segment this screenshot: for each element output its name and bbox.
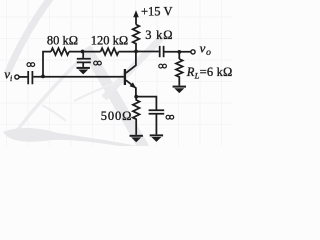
node O junction dot <box>177 50 181 54</box>
node B junction dot <box>81 50 85 54</box>
ground G2 (RL) <box>173 86 186 94</box>
capacitor CE (emitter bypass) <box>149 110 165 113</box>
svg-text:120 kΩ: 120 kΩ <box>91 34 128 48</box>
wire emitter to CE <box>136 97 156 110</box>
wire R2 to node X <box>119 51 136 53</box>
resistor R3 3k <box>133 25 140 52</box>
capacitor C3 (output coupling) <box>160 46 164 57</box>
resistor R2 120k <box>101 48 119 55</box>
capacitor C1 (input coupling) <box>28 71 32 84</box>
ground G4 (CE) <box>150 134 163 142</box>
supply arrowhead <box>133 10 139 17</box>
wire node O down to RL <box>178 52 180 59</box>
transistor Q1 collector <box>126 51 136 73</box>
wire node A up to R1 <box>43 52 51 77</box>
transistor Q1 emitter <box>126 80 136 96</box>
ground G3 (RE) <box>130 135 143 143</box>
wire C3 to node O <box>164 51 190 53</box>
wire emitter node <box>134 95 138 99</box>
capacitor C2 (bias bypass) <box>77 59 91 63</box>
wire R1 to node B <box>69 51 101 53</box>
node X junction dot <box>134 50 138 54</box>
resistor RE 500 <box>133 97 140 135</box>
svg-text:500Ω: 500Ω <box>101 109 133 123</box>
svg-text:RL=6 kΩ: RL=6 kΩ <box>186 65 232 81</box>
infinity label CE <box>166 115 174 119</box>
supply arrow +15V <box>135 16 137 25</box>
infinity label C3 <box>159 64 167 68</box>
infinity label C1 <box>27 63 35 67</box>
node vi terminal <box>15 75 19 79</box>
svg-text:+15 V: +15 V <box>141 4 172 18</box>
svg-text:80 kΩ: 80 kΩ <box>47 34 78 48</box>
wire CE to ground <box>155 114 157 135</box>
transistor Q1 emitter arrowhead <box>130 82 137 88</box>
resistor R1 80k <box>51 48 69 55</box>
node A junction dot <box>41 75 45 79</box>
node vo terminal <box>191 50 195 54</box>
wire C2 to ground <box>82 62 84 67</box>
faint grid <box>0 0 232 146</box>
watermark swooshes <box>3 0 163 149</box>
wire vi to C1 <box>19 76 27 78</box>
transistor Q1 base bar <box>124 69 126 85</box>
resistor RL 6k <box>176 59 183 86</box>
wire node B down to C2 <box>82 52 84 59</box>
ground G1 (bias bypass) <box>77 67 90 75</box>
infinity label C2 <box>94 61 102 65</box>
wire C1 to base <box>33 76 124 78</box>
svg-text:3 kΩ: 3 kΩ <box>145 28 173 42</box>
wire node X to C3 <box>136 51 159 53</box>
